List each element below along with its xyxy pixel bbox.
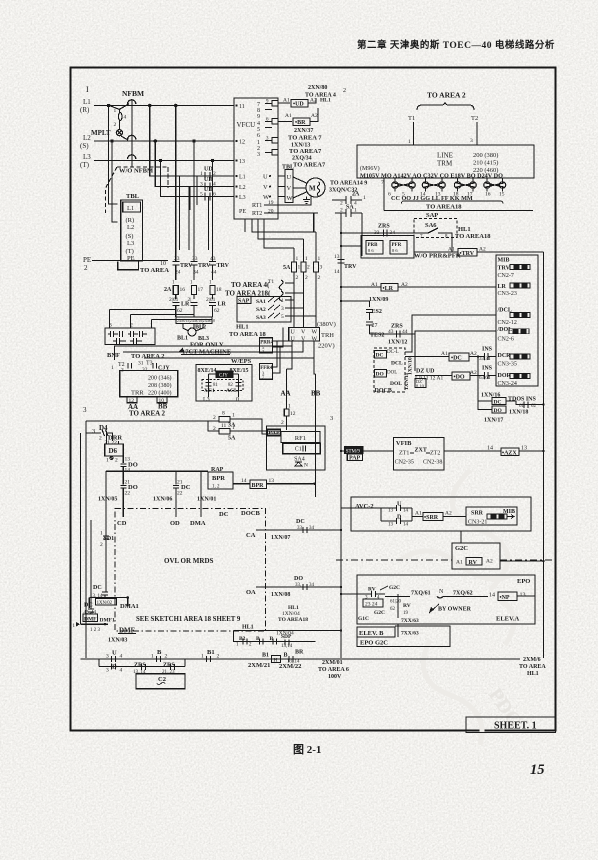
svg-text:DC-L: DC-L: [387, 350, 399, 355]
svg-text:1XN/09: 1XN/09: [369, 297, 388, 303]
svg-text:FOR ONLY: FOR ONLY: [190, 342, 224, 349]
svg-text:12: 12: [239, 140, 245, 146]
contact group (dashed): [202, 380, 243, 391]
svg-text:TO AREA7: TO AREA7: [289, 148, 322, 155]
svg-text:20: 20: [268, 209, 274, 215]
svg-text:AA: AA: [281, 390, 291, 398]
svg-text:PAP: PAP: [268, 431, 280, 437]
breaker NFBM linkage (dashed): [149, 106, 151, 142]
wire TRH secondary nest: [115, 341, 314, 360]
wire U to TBL: [278, 175, 285, 177]
svg-text:EPO G2C: EPO G2C: [360, 640, 388, 647]
board AVC-2: [351, 497, 531, 531]
svg-text:18: 18: [216, 287, 222, 293]
svg-text:1: 1: [200, 171, 203, 177]
svg-text:16: 16: [485, 192, 491, 198]
svg-text:U: U: [291, 337, 296, 343]
svg-text:OD: OD: [170, 520, 180, 527]
svg-text:1: 1: [201, 654, 204, 660]
breaker NFBM pole 3 arc: [128, 155, 136, 159]
svg-text:1: 1: [111, 365, 114, 371]
svg-text:CN2-38: CN2-38: [423, 460, 442, 466]
svg-text:TO AREA 2: TO AREA 2: [427, 91, 466, 100]
svg-text:•AZX: •AZX: [502, 451, 517, 457]
contact UD 1-2: [197, 175, 234, 177]
fuse 5A no.1: [293, 248, 295, 327]
svg-text:CN2-6: CN2-6: [498, 337, 514, 343]
svg-text:TRV: TRV: [217, 263, 230, 269]
contact TRV 23-24: [172, 251, 179, 280]
svg-text:SRR: SRR: [471, 511, 484, 517]
wire STM to VFIB: [341, 450, 394, 452]
svg-text:2: 2: [217, 654, 220, 660]
wire pair verticals: [180, 176, 209, 250]
terminal BPR 14-13: [233, 483, 250, 485]
svg-text:DC: DC: [219, 511, 229, 518]
contactor BNF: [105, 328, 155, 345]
svg-text:TRV: TRV: [344, 264, 357, 270]
pin 12: [235, 140, 237, 142]
svg-text:W/O PRR&PFR: W/O PRR&PFR: [414, 253, 461, 260]
svg-text:D: D: [112, 664, 117, 671]
svg-text:2: 2: [340, 208, 343, 214]
net 1XN/09: [341, 301, 370, 307]
wire CJY leads: [209, 374, 239, 397]
svg-text:C2: C2: [158, 676, 166, 683]
svg-text:2XN/37: 2XN/37: [294, 128, 313, 134]
svg-text:TRR: TRR: [131, 390, 144, 397]
relay SRR coil: [412, 516, 423, 518]
svg-text:CA: CA: [246, 532, 256, 539]
svg-text:TO AREA: TO AREA: [519, 664, 546, 670]
terminal 10 BB: [157, 397, 167, 403]
svg-text:B1: B1: [207, 649, 215, 656]
enclosure W/O NFBM (dashed trapezoid): [106, 167, 168, 213]
svg-text:T1: T1: [268, 279, 274, 285]
svg-text:INS: INS: [482, 366, 493, 372]
svg-text:2: 2: [213, 426, 216, 432]
svg-text:DO: DO: [294, 576, 303, 582]
svg-text:14: 14: [487, 446, 493, 452]
wire second row: [99, 659, 185, 667]
svg-text:1XN/08: 1XN/08: [271, 592, 290, 598]
wire bottom bus: [81, 658, 521, 660]
svg-text:(R): (R): [126, 217, 135, 224]
pin L3: [235, 195, 237, 197]
wire V to TBL: [278, 186, 285, 188]
contact TRV 43-44: [209, 251, 216, 280]
svg-text:61: 61: [519, 404, 525, 409]
svg-text:HL1: HL1: [242, 625, 254, 631]
svg-text:SA2: SA2: [256, 307, 266, 313]
svg-text:19: 19: [403, 611, 409, 616]
svg-text:D: D: [397, 515, 402, 521]
svg-text:BNF: BNF: [107, 352, 120, 359]
breaker hook T1: [279, 280, 283, 290]
transformer TRH: [289, 327, 320, 341]
svg-text:CN3-21: CN3-21: [468, 520, 487, 526]
svg-text:L1: L1: [127, 205, 134, 212]
svg-text:14: 14: [125, 468, 131, 474]
pin 11: [235, 104, 237, 106]
wire OA to bus: [256, 586, 341, 588]
svg-text:1: 1: [354, 208, 357, 214]
svg-text:2: 2: [165, 654, 168, 660]
svg-text:VFIB: VFIB: [396, 440, 412, 447]
svg-text:5A: 5A: [283, 265, 291, 271]
contact ZRS 43-44: [370, 333, 416, 335]
svg-text:TO AREA 7: TO AREA 7: [288, 135, 322, 142]
svg-text:7: 7: [381, 180, 384, 186]
svg-text:MPLT: MPLT: [91, 129, 111, 137]
svg-text:CN3-24: CN3-24: [498, 381, 517, 387]
wire UD A2 up: [308, 98, 316, 103]
wire BNF feeders: [110, 309, 213, 328]
svg-text:TO AREA: TO AREA: [140, 267, 169, 274]
svg-text:15: 15: [530, 762, 545, 778]
svg-text:A1: A1: [285, 113, 292, 119]
svg-text:TO AREA14 9: TO AREA14 9: [330, 181, 367, 187]
svg-text:DOR: DOR: [498, 373, 512, 379]
breaker NFBM pole 1 arc: [128, 100, 136, 104]
svg-text:200 (380): 200 (380): [473, 152, 498, 159]
wire T2 drop: [476, 122, 478, 145]
svg-text:/DOL: /DOL: [497, 327, 513, 333]
svg-text:1: 1: [151, 654, 154, 660]
terminal 12 AA: [127, 397, 137, 403]
svg-text:TO AREA 4(: TO AREA 4(: [231, 281, 270, 289]
winding pair 3: [458, 178, 473, 182]
svg-text:BY OWNER: BY OWNER: [438, 607, 472, 613]
svg-text:62: 62: [531, 404, 537, 409]
svg-text:SA1: SA1: [256, 299, 266, 305]
svg-text:N: N: [304, 463, 308, 469]
svg-text:2XN/80: 2XN/80: [308, 85, 327, 91]
svg-text:DOL: DOL: [390, 381, 402, 387]
svg-text:L1: L1: [239, 175, 246, 181]
wire SDP row: [234, 631, 316, 642]
svg-text:RV: RV: [403, 603, 411, 609]
wire vertical L1 to TRV col1: [175, 106, 177, 252]
svg-text:DO: DO: [494, 408, 503, 414]
svg-text:1: 1: [281, 298, 284, 304]
svg-text:2: 2: [307, 265, 310, 271]
svg-text:1: 1: [288, 404, 291, 410]
svg-text:G2C: G2C: [374, 610, 385, 616]
svg-text:U: U: [291, 330, 296, 336]
svg-text:4: 4: [120, 668, 123, 674]
svg-text:3: 3: [106, 668, 109, 674]
svg-text:A1: A1: [371, 282, 378, 288]
svg-text:13: 13: [239, 159, 245, 165]
svg-text:TO AREA18: TO AREA18: [455, 233, 491, 240]
svg-text:ELEV. B: ELEV. B: [359, 630, 384, 637]
svg-text:2: 2: [100, 542, 103, 548]
svg-text:200 (346): 200 (346): [148, 375, 172, 382]
right bus: [543, 252, 545, 658]
svg-text:N: N: [439, 589, 444, 595]
svg-text:L3: L3: [239, 195, 246, 201]
svg-text:1, 2: 1, 2: [212, 485, 220, 490]
box ELEV.B: [357, 627, 395, 637]
svg-text:2A: 2A: [164, 287, 172, 293]
svg-text:U: U: [112, 650, 117, 657]
svg-text:BR: BR: [295, 650, 304, 656]
svg-text:HL1: HL1: [236, 324, 249, 331]
svg-text:61|20: 61|20: [390, 600, 402, 605]
wire AVC2 to G2C: [460, 531, 462, 543]
svg-text:PE: PE: [239, 209, 246, 215]
wire L2 phase line: [94, 140, 234, 142]
motor M: [306, 178, 325, 197]
fuse 3A: [86, 420, 219, 422]
svg-text:1: 1: [296, 256, 299, 262]
svg-text:(S): (S): [126, 233, 134, 240]
svg-text:LR: LR: [218, 302, 227, 308]
svg-text:8 6: 8 6: [368, 248, 374, 253]
svg-text:1XN/06: 1XN/06: [153, 497, 172, 503]
svg-text:SA6: SA6: [425, 222, 437, 229]
svg-text:MIB: MIB: [498, 258, 510, 264]
wire bus to EPO: [341, 593, 357, 595]
svg-text:22: 22: [125, 491, 131, 497]
wire BB drop: [315, 374, 317, 497]
svg-text:图 2-1: 图 2-1: [293, 743, 321, 756]
svg-text:62: 62: [390, 607, 396, 612]
interlock group (dashed): [374, 348, 405, 392]
svg-text:220V): 220V): [318, 343, 335, 350]
wire 1XN/02: [89, 597, 128, 599]
svg-text:RT2: RT2: [252, 211, 262, 217]
wire DMF row: [81, 623, 109, 625]
svg-text:4: 4: [213, 182, 216, 188]
svg-text:1: 1: [363, 195, 366, 201]
svg-text:I: I: [86, 85, 89, 94]
svg-text:RV: RV: [469, 560, 478, 566]
inverter unit VFCU: [234, 98, 278, 219]
net 1XN/16: [478, 357, 492, 402]
svg-text:15: 15: [499, 192, 505, 198]
svg-text:TO AREA18: TO AREA18: [278, 617, 308, 623]
svg-text:11: 11: [221, 423, 227, 429]
svg-text:T3: T3: [146, 361, 153, 367]
svg-text:1: 1: [318, 256, 321, 262]
fuse AA 12: [284, 409, 289, 416]
svg-text:12: 12: [290, 411, 296, 417]
svg-text:63,64: 63,64: [479, 376, 491, 381]
svg-text:SHEET. 1: SHEET. 1: [494, 721, 537, 732]
svg-text:TES2: TES2: [370, 333, 384, 339]
svg-text:2XM/01: 2XM/01: [322, 660, 343, 666]
wire PE drop: [92, 219, 245, 261]
svg-text:VFCU: VFCU: [237, 121, 256, 129]
svg-text:23: 23: [174, 256, 180, 262]
svg-text:13: 13: [269, 478, 275, 484]
svg-text:U: U: [397, 502, 402, 508]
svg-text:1XN/17: 1XN/17: [484, 418, 503, 424]
svg-text:2A: 2A: [352, 192, 360, 198]
wire L1 phase line: [94, 105, 234, 107]
svg-text:7XQ/61: 7XQ/61: [411, 591, 431, 597]
svg-text:AVC-2: AVC-2: [355, 503, 374, 510]
svg-text:ZRS: ZRS: [378, 224, 390, 230]
svg-text:22: 22: [177, 491, 183, 497]
svg-text:ZT2: ZT2: [430, 451, 440, 457]
wire left bus: [85, 421, 87, 658]
pin 13: [235, 159, 237, 161]
wire UD bypass 2: [155, 141, 197, 187]
contact DO: [375, 370, 387, 378]
svg-text:SAP: SAP: [238, 299, 250, 305]
winding pair 4: [487, 178, 503, 182]
svg-text:3: 3: [92, 428, 95, 435]
svg-text:7XX/63: 7XX/63: [401, 631, 419, 637]
svg-text:CN2-7: CN2-7: [498, 273, 514, 279]
svg-text:1: 1: [305, 256, 308, 262]
terminal 23-24: [363, 599, 383, 607]
svg-text:2: 2: [305, 275, 308, 281]
svg-text:V: V: [263, 184, 268, 191]
svg-text:M: M: [309, 185, 316, 193]
svg-text:2: 2: [115, 458, 118, 464]
wire PE line: [92, 260, 140, 262]
brace: [417, 102, 474, 110]
wire hooks to fuses: [285, 283, 304, 293]
svg-text:8XE/14: 8XE/14: [198, 368, 217, 374]
svg-text:3: 3: [83, 406, 87, 414]
svg-text:DC: DC: [296, 519, 305, 525]
svg-text:ACL: ACL: [226, 388, 238, 394]
svg-text:2: 2: [296, 275, 299, 281]
svg-text:DMA1: DMA1: [120, 603, 139, 610]
svg-text:1: 1: [232, 413, 235, 419]
svg-text:9: 9: [257, 114, 260, 120]
connector stubs on VFCU right edge: [265, 104, 272, 153]
capacitor C1: [283, 443, 321, 453]
svg-text:UD: UD: [204, 187, 213, 193]
svg-text:2: 2: [343, 88, 346, 94]
enclosure EPO: [357, 575, 535, 624]
winding pair 2: [426, 178, 443, 182]
svg-text:A1: A1: [441, 351, 448, 357]
svg-text:1XN/12: 1XN/12: [388, 340, 407, 346]
terminal STM/9: [345, 447, 363, 454]
svg-text:6: 6: [257, 133, 260, 139]
svg-text:BL1: BL1: [177, 336, 188, 342]
svg-text:6: 6: [213, 192, 216, 198]
terminal SRR CN3-21: [466, 507, 517, 525]
svg-text:OA: OA: [246, 589, 256, 596]
svg-text:33: 33: [192, 256, 198, 262]
svg-text:•LR: •LR: [383, 286, 394, 292]
svg-text:CN3-35: CN3-35: [498, 362, 517, 368]
svg-text:DCL: DCL: [391, 361, 403, 367]
svg-text:1XN/02: 1XN/02: [97, 601, 113, 606]
svg-text:7XX/63: 7XX/63: [401, 618, 419, 624]
svg-text:A2: A2: [445, 511, 452, 517]
wire UD bypass 1: [150, 106, 197, 177]
svg-text:27: 27: [372, 323, 378, 329]
svg-text:3: 3: [109, 323, 112, 329]
svg-text:L2: L2: [127, 224, 134, 231]
svg-text:TO AREA 2: TO AREA 2: [129, 410, 166, 418]
svg-text:V: V: [301, 330, 306, 336]
svg-text:RT1: RT1: [252, 203, 262, 209]
svg-text:D6: D6: [109, 447, 118, 455]
svg-text:DMF1: DMF1: [100, 618, 116, 624]
svg-text:CN2-12: CN2-12: [498, 320, 517, 326]
svg-text:PAP: PAP: [349, 456, 361, 462]
svg-text:SDP: SDP: [281, 634, 292, 640]
wire BR A2: [310, 108, 318, 122]
svg-text:2: 2: [84, 264, 88, 272]
wire vertical L3 to TRV col3: [212, 161, 214, 252]
svg-text:5: 5: [200, 192, 203, 198]
svg-text:2: 2: [213, 415, 216, 421]
svg-text:2: 2: [281, 420, 284, 426]
svg-text:4: 4: [124, 115, 127, 121]
svg-text:M105V MO A142V AO C32V CO E18V: M105V MO A142V AO C32V CO E18V BO D24V D…: [360, 173, 503, 180]
svg-text:G2C: G2C: [455, 545, 468, 552]
wire T1 drop: [413, 122, 415, 145]
svg-text:A1: A1: [283, 98, 290, 104]
svg-text:XC1: XC1: [204, 388, 215, 394]
svg-text:ZXT: ZXT: [415, 448, 427, 454]
svg-text:4: 4: [120, 654, 123, 660]
wire L2 to TBL: [112, 141, 118, 222]
svg-text:44: 44: [402, 329, 408, 335]
svg-text:T2: T2: [471, 115, 478, 122]
wire CA to bus: [256, 529, 341, 531]
svg-text:•SRR: •SRR: [424, 515, 439, 521]
svg-text:34: 34: [309, 583, 315, 588]
svg-text:•BR: •BR: [295, 120, 306, 126]
svg-text:UD: UD: [204, 167, 213, 173]
wire UD bypass 3: [161, 161, 198, 197]
transformer TRM box: [357, 145, 534, 178]
relay DC coil: [405, 356, 449, 358]
separation dash-dot line: [336, 559, 552, 561]
terminal PAP: [347, 454, 362, 461]
svg-text:/DCL: /DCL: [497, 308, 512, 314]
relay AZX: [444, 450, 501, 452]
svg-text:TO AREA7: TO AREA7: [293, 162, 326, 169]
svg-text:•DO: •DO: [454, 375, 465, 381]
svg-text:2: 2: [262, 349, 264, 354]
svg-text:SEE SKETCH1 AREA 18 SHEET 9: SEE SKETCH1 AREA 18 SHEET 9: [136, 616, 241, 623]
wire SA taps: [285, 300, 316, 316]
svg-text:13: 13: [334, 254, 340, 260]
svg-text:TRH: TRH: [321, 332, 334, 339]
svg-text:U: U: [287, 174, 292, 181]
svg-text:SA3: SA3: [256, 315, 266, 321]
svg-text:G1C: G1C: [358, 616, 369, 622]
svg-text:1XN/05: 1XN/05: [98, 497, 117, 503]
svg-text:A1: A1: [415, 511, 422, 517]
svg-text:17: 17: [198, 287, 204, 293]
svg-text:43: 43: [210, 256, 216, 262]
svg-text:13,14: 13,14: [281, 644, 293, 649]
wire feeder bus y471: [106, 470, 208, 472]
svg-text:TRV: TRV: [198, 263, 211, 269]
diode block DZ: [415, 379, 426, 388]
svg-text:DC: DC: [84, 603, 93, 609]
wire DMA drop: [200, 471, 202, 508]
svg-text:1: 1: [150, 323, 153, 329]
svg-text:8 6: 8 6: [392, 248, 398, 253]
svg-text:62: 62: [214, 308, 220, 314]
watermark: [400, 470, 520, 745]
